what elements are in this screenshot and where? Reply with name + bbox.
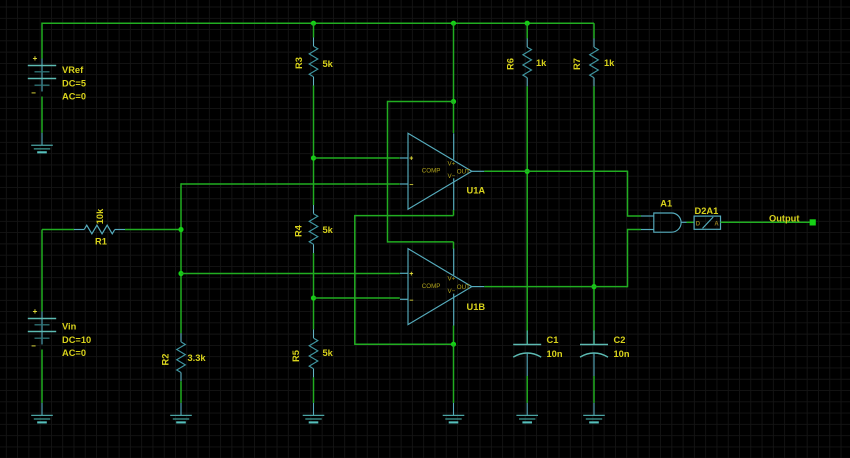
- wire U1B plus feed: [181, 273, 400, 275]
- node R1-R2 junction: [178, 227, 183, 232]
- wire U1B output: [484, 286, 627, 288]
- svg-text:10n: 10n: [614, 349, 630, 359]
- label R3 value 5k: [323, 59, 334, 69]
- svg-text:V+: V+: [448, 160, 456, 167]
- label U1B: [467, 302, 486, 312]
- svg-text:R6: R6: [506, 58, 516, 70]
- node R6 top: [525, 21, 530, 26]
- svg-text:COMP: COMP: [422, 168, 441, 175]
- label VRef values: [62, 65, 86, 101]
- wire U1A V- exit: [453, 210, 455, 216]
- wire V+ loop to U1B: [388, 241, 454, 243]
- label C1: [547, 335, 563, 359]
- svg-text:D2A1: D2A1: [695, 206, 719, 216]
- label R4 value 5k: [323, 225, 334, 235]
- node U1A out junction: [525, 169, 530, 174]
- op-amp U1B: [400, 249, 484, 326]
- wire R2 bottom: [180, 381, 182, 403]
- svg-text:−: −: [409, 182, 413, 189]
- wire R6 top stub: [526, 23, 528, 38]
- svg-text:R7: R7: [572, 58, 582, 70]
- svg-text:1k: 1k: [604, 58, 615, 68]
- wire R3 to R4: [313, 86, 315, 206]
- ground GND under C2: [583, 403, 605, 423]
- resistor R2: [177, 333, 186, 381]
- svg-text:5k: 5k: [323, 348, 334, 358]
- svg-text:R2: R2: [161, 354, 171, 366]
- svg-text:V−: V−: [448, 173, 456, 180]
- wire U1B out rise: [627, 229, 629, 287]
- label C2: [614, 335, 630, 359]
- label 3.3k: [188, 353, 207, 363]
- label R7 value 1k: [604, 58, 615, 68]
- label R6 value 1k: [536, 58, 547, 68]
- wire Vin bottom to ground: [41, 350, 43, 403]
- and gate A1: [641, 213, 687, 232]
- wire gate to D2A1: [687, 221, 695, 223]
- wire V+ loop horizontal: [388, 101, 454, 103]
- wire V+ loop vertical: [387, 101, 389, 243]
- node V- ground junction: [451, 342, 456, 347]
- wire R1 row left: [42, 229, 74, 231]
- label D2A1: [695, 206, 719, 216]
- svg-text:5k: 5k: [323, 225, 334, 235]
- svg-text:Vin: Vin: [62, 321, 77, 331]
- wire V- loop vertical: [354, 215, 356, 345]
- label Output: [769, 213, 799, 223]
- label R6: [506, 58, 516, 70]
- wire V+ into U1A: [453, 102, 455, 134]
- svg-text:R5: R5: [291, 350, 301, 362]
- svg-text:R1: R1: [95, 236, 107, 246]
- svg-text:+: +: [409, 156, 413, 163]
- label R1: [95, 236, 107, 246]
- wire supply ground drop: [453, 344, 455, 403]
- ground GND under R5: [303, 403, 325, 423]
- wire C1 bottom: [526, 376, 528, 403]
- resistor R7: [590, 38, 599, 86]
- svg-text:DC=5: DC=5: [62, 78, 86, 88]
- resistor R3: [309, 38, 318, 86]
- capacitor C2: [580, 331, 608, 377]
- wire R2 column upper: [180, 183, 182, 333]
- wire U1A output: [484, 170, 627, 172]
- wire gate input A: [628, 215, 642, 217]
- svg-text:U1A: U1A: [467, 186, 486, 196]
- wire U1A out drop: [627, 171, 629, 217]
- svg-text:V+: V+: [448, 276, 456, 283]
- node R3-R4 tap: [311, 155, 316, 160]
- resistor R4: [309, 205, 318, 253]
- ground GND under VRef: [31, 133, 53, 153]
- node supply drop from rail: [451, 21, 456, 26]
- wire R7 corner: [593, 23, 595, 38]
- wire supply drop: [453, 23, 455, 101]
- svg-text:−: −: [31, 89, 36, 98]
- battery Vin: [28, 307, 56, 351]
- capacitor C1: [513, 331, 541, 377]
- svg-text:Output: Output: [769, 213, 799, 223]
- battery VRef: [28, 54, 56, 98]
- wire Vin top: [41, 230, 43, 312]
- label R5 value 5k: [323, 348, 334, 358]
- svg-text:A: A: [714, 221, 719, 227]
- wire output: [721, 221, 810, 223]
- ground GND under U1B: [443, 403, 465, 423]
- resistor R1: [74, 225, 125, 234]
- ground GND under R2: [170, 403, 192, 423]
- label R5: [291, 350, 301, 362]
- node U1B plus tap: [178, 271, 183, 276]
- wire VRef top: [41, 23, 43, 59]
- label Vin values: [62, 321, 91, 358]
- converter D2A1: [694, 216, 720, 229]
- wire R7 to C2: [593, 86, 595, 344]
- wire top rail: [42, 22, 594, 24]
- op-amp U1A: [400, 133, 484, 210]
- svg-text:10n: 10n: [547, 349, 563, 359]
- wire VRef bottom to ground: [41, 97, 43, 133]
- label 10k: [95, 208, 105, 224]
- resistor R5: [309, 329, 318, 377]
- svg-text:VRef: VRef: [62, 65, 84, 75]
- node U1A V+ junction: [451, 99, 456, 104]
- svg-text:1k: 1k: [536, 58, 547, 68]
- wire U1B V+ entry: [453, 242, 455, 249]
- svg-text:COMP: COMP: [422, 283, 441, 290]
- wire C2 bottom: [593, 376, 595, 403]
- svg-text:OUT: OUT: [457, 284, 470, 291]
- svg-text:OUT: OUT: [457, 169, 470, 176]
- label R2: [161, 354, 171, 366]
- svg-text:A1: A1: [660, 199, 672, 209]
- label R7: [572, 58, 582, 70]
- svg-text:U1B: U1B: [467, 302, 486, 312]
- svg-text:R4: R4: [294, 224, 304, 237]
- wire R6 to C1: [526, 86, 528, 344]
- label R4: [294, 224, 304, 237]
- svg-text:C2: C2: [614, 335, 626, 345]
- wire V- loop horizontal: [355, 215, 454, 217]
- node R3 top: [311, 21, 316, 26]
- label A1: [660, 199, 672, 209]
- svg-text:−: −: [409, 297, 413, 304]
- wire U1A plus feed: [314, 157, 400, 159]
- svg-text:−: −: [31, 342, 36, 351]
- svg-text:+: +: [33, 54, 38, 63]
- label R3: [294, 57, 304, 69]
- ground GND under C1: [516, 403, 538, 423]
- label U1A: [467, 186, 486, 196]
- wire R4 to R5: [313, 253, 315, 329]
- svg-text:D: D: [696, 221, 701, 227]
- svg-text:+: +: [33, 307, 38, 316]
- svg-text:C1: C1: [547, 335, 559, 345]
- node Output terminal: [810, 219, 816, 225]
- wire U1B minus feed: [314, 297, 400, 299]
- ground GND under Vin: [31, 403, 53, 423]
- svg-text:AC=0: AC=0: [62, 348, 86, 358]
- svg-text:5k: 5k: [323, 59, 334, 69]
- svg-text:+: +: [409, 271, 413, 278]
- svg-text:V−: V−: [448, 288, 456, 295]
- wire R5 bottom: [313, 377, 315, 403]
- wire U1B V- exit: [453, 326, 455, 345]
- node R4-R5 tap: [311, 295, 316, 300]
- svg-text:3.3k: 3.3k: [188, 353, 207, 363]
- svg-text:AC=0: AC=0: [62, 92, 86, 102]
- node U1B out junction: [591, 284, 596, 289]
- wire gate input B: [628, 229, 642, 231]
- svg-text:10k: 10k: [95, 208, 105, 224]
- wire R1 row right: [125, 229, 181, 231]
- svg-text:DC=10: DC=10: [62, 335, 91, 345]
- resistor R6: [523, 38, 532, 86]
- svg-text:R3: R3: [294, 57, 304, 69]
- wire V- loop bottom: [355, 343, 454, 345]
- wire U1A minus feed: [181, 183, 400, 185]
- wire R3 top stub: [313, 23, 315, 37]
